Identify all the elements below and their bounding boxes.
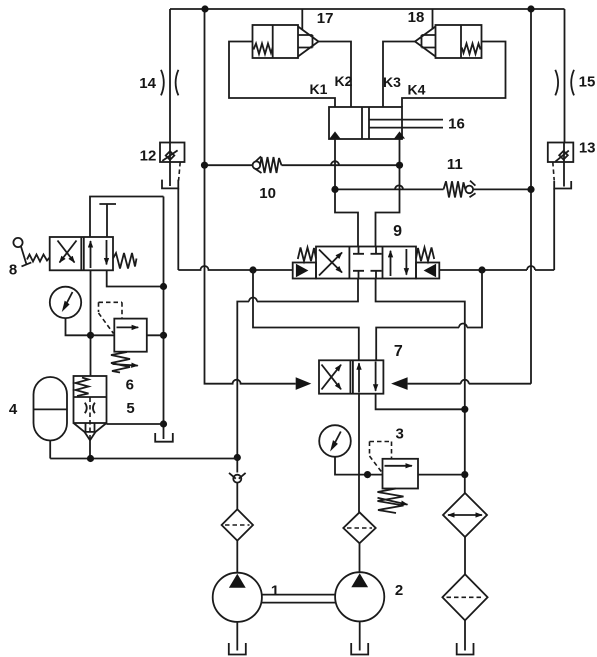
- junction dot pilot tap 3: [364, 471, 371, 478]
- label 14: [139, 75, 156, 92]
- label 5: [126, 400, 134, 417]
- shaft coupling pumps: [261, 595, 335, 603]
- svg-text:1: 1: [271, 583, 279, 600]
- label 3: [396, 425, 404, 442]
- svg-text:7: 7: [394, 343, 403, 360]
- directional valve 9: [293, 247, 440, 279]
- junction dot rail-item6: [160, 332, 167, 339]
- plugged port valve 8: [99, 204, 116, 237]
- orifice 15: [555, 70, 574, 96]
- wire check line 11 right: [473, 188, 531, 190]
- wire gauge left to junction: [66, 318, 91, 335]
- wire tank13 to valve 9 right pilot: [439, 189, 554, 271]
- wire top bus: [170, 8, 565, 10]
- svg-text:K3: K3: [383, 74, 401, 90]
- label 7: [394, 343, 403, 360]
- label 18: [408, 9, 425, 26]
- junction dot line11 right: [527, 186, 534, 193]
- manual valve 8: [13, 237, 136, 270]
- tank under 13: [554, 181, 571, 189]
- wire pump 1 pressure line to valve 9: [237, 279, 358, 458]
- wire valve 8 bottom right: [107, 270, 164, 286]
- label K2: [335, 73, 353, 89]
- junction dot line11 left: [331, 186, 338, 193]
- label 1: [271, 583, 279, 600]
- wire riser to cylinder 18: [432, 9, 434, 30]
- check valve suction: [229, 458, 246, 510]
- accumulator 4: [34, 377, 68, 441]
- label 4: [9, 401, 18, 418]
- label 15: [579, 73, 596, 90]
- label K4: [408, 82, 426, 98]
- gauge above item 3: [319, 425, 351, 457]
- svg-text:6: 6: [126, 377, 134, 394]
- junction dot tank line upper: [461, 406, 468, 413]
- wire K1: [229, 42, 335, 108]
- wire filter 1 to pump 1: [236, 541, 238, 573]
- junction dot rail-valve8: [160, 283, 167, 290]
- wire tank return line from valve 9: [376, 279, 465, 494]
- wire item5 bottom to bus: [89, 440, 91, 458]
- svg-text:13: 13: [579, 139, 596, 156]
- svg-text:18: 18: [408, 9, 425, 26]
- wire check line 10 left: [205, 164, 253, 166]
- label K3: [383, 74, 401, 90]
- svg-text:17: 17: [317, 10, 334, 27]
- junction dot top right: [527, 5, 534, 12]
- tank left rail: [155, 433, 173, 442]
- wire rail from top dot to valve 7 left pilot: [205, 9, 296, 384]
- cylinder 18: [415, 25, 482, 58]
- wire K4: [402, 42, 506, 108]
- orifice 14: [161, 70, 178, 96]
- svg-text:9: 9: [393, 223, 402, 240]
- junction dot valve9 left pilot: [249, 266, 256, 273]
- junction dot rail-item5: [160, 420, 167, 427]
- wire valve 8 top left to rail: [90, 197, 164, 238]
- wire pilot interconnect left to valve 7 port A: [253, 270, 359, 360]
- wire 16 left port down to valve 9: [335, 139, 358, 247]
- svg-text:16: 16: [448, 115, 465, 132]
- relief valve 3: [370, 442, 419, 514]
- tank pump 1: [229, 643, 246, 655]
- svg-text:12: 12: [140, 148, 157, 165]
- check valve 10: [253, 156, 282, 173]
- wire filter 2 to pump 2: [359, 543, 361, 572]
- svg-text:4: 4: [9, 401, 18, 418]
- wire 16 right port down to valve 9: [376, 139, 400, 247]
- directional valve 7: [296, 360, 408, 393]
- svg-text:2: 2: [395, 582, 403, 599]
- drain line 13 (dashed): [553, 162, 554, 181]
- wire left return rail: [163, 197, 165, 440]
- wire gauge to relief valve 3: [335, 457, 383, 475]
- label 8: [9, 261, 17, 278]
- junction dot top left: [201, 5, 208, 12]
- wire rail from top dot to valve 7 right side: [408, 9, 531, 384]
- junction dot valve9 right pilot: [478, 266, 485, 273]
- wire pilot interconnect right from valve 7 port B: [376, 270, 482, 360]
- svg-text:10: 10: [259, 185, 276, 202]
- junction dot suction bus: [234, 454, 241, 461]
- suction filter 2: [343, 512, 375, 543]
- tank return: [457, 643, 474, 655]
- svg-text:5: 5: [126, 400, 134, 417]
- drain line 12 (dashed): [179, 162, 181, 181]
- wire accumulator to bus: [49, 441, 51, 459]
- label K1: [310, 81, 328, 97]
- label 12: [140, 148, 157, 165]
- relief valve 6: [99, 302, 147, 372]
- svg-text:15: 15: [579, 73, 596, 90]
- label 6: [126, 377, 134, 394]
- wire pump 1 to tank: [236, 622, 238, 651]
- wire right rail to item 13: [564, 9, 566, 143]
- svg-text:8: 8: [9, 261, 17, 278]
- wire item6 inlet: [91, 334, 115, 336]
- cooler: [443, 493, 487, 537]
- svg-text:K2: K2: [335, 73, 353, 89]
- label 17: [317, 10, 334, 27]
- wire left rail to item 12: [169, 9, 171, 143]
- svg-text:14: 14: [139, 75, 156, 92]
- wire suction bus: [50, 458, 237, 460]
- pump 1: [213, 573, 262, 622]
- svg-text:K1: K1: [310, 81, 328, 97]
- wire pump 2 pressure rail through valve 7: [358, 394, 360, 513]
- label 2: [395, 582, 403, 599]
- svg-text:11: 11: [447, 156, 463, 173]
- wire check line 10 right: [282, 161, 400, 165]
- wire filter to tank: [464, 620, 466, 650]
- tank pump 2: [351, 643, 368, 655]
- label 13: [579, 139, 596, 156]
- svg-text:3: 3: [396, 425, 404, 442]
- label 11: [447, 156, 463, 173]
- unloader valve 5: [74, 376, 107, 440]
- pump 2: [335, 572, 384, 621]
- pressure switch 12: [160, 143, 185, 187]
- gauge left: [50, 287, 81, 318]
- wire item6 outlet: [147, 334, 164, 336]
- label 16: [448, 115, 465, 132]
- svg-text:K4: K4: [408, 82, 426, 98]
- wire relief 3 outlet: [418, 474, 465, 476]
- junction dot bus item5: [87, 455, 94, 462]
- wire tank12 to valve 9 left pilot: [178, 188, 292, 270]
- junction dot line10 left: [201, 162, 208, 169]
- junction dot line10 right: [396, 162, 403, 169]
- wire item5 side port to rail: [107, 423, 164, 425]
- wire riser to cylinder 17: [301, 9, 303, 30]
- wire valve 8 bottom left down to item 5: [90, 270, 92, 376]
- junction dot tank line lower: [461, 471, 468, 478]
- wire cooler to filter: [464, 537, 466, 574]
- master cylinder 16: [329, 107, 443, 139]
- cylinder 17: [253, 25, 319, 58]
- label 10: [259, 185, 276, 202]
- junction dot item6 inlet: [87, 332, 94, 339]
- wire valve 7 bottom right to tank line: [376, 394, 465, 410]
- wire K2: [319, 42, 352, 108]
- pressure switch 13: [548, 143, 574, 187]
- tank under 12: [162, 180, 178, 189]
- wire check line 11 left: [335, 185, 444, 189]
- suction filter 1: [222, 509, 253, 540]
- return filter: [442, 574, 487, 620]
- check valve 11: [444, 181, 476, 198]
- wire pump 2 to tank: [359, 621, 361, 650]
- label 9: [393, 223, 402, 240]
- wire K3: [383, 42, 416, 108]
